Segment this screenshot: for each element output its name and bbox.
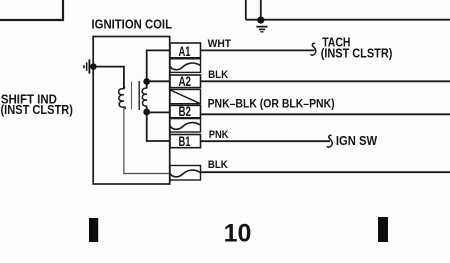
label (INST CLSTR) left: [1, 102, 73, 117]
page marker bar right: [378, 217, 388, 242]
svg-text:B2: B2: [179, 104, 192, 119]
wire secondary top to pin A2: [147, 80, 170, 82]
svg-text:A2: A2: [179, 74, 192, 89]
node junction dot top: [257, 17, 264, 24]
page marker bar left: [89, 218, 98, 242]
ignition coil outline box: [93, 37, 170, 185]
connector pin box A1: [170, 43, 201, 59]
label IGNITION COIL: [92, 16, 173, 31]
node dot secondary bottom: [143, 109, 150, 116]
wire secondary bottom to pin B2: [147, 111, 170, 113]
wire BLK upper: [201, 80, 450, 82]
wire stub from above to ground node: [260, 0, 262, 20]
wire PNK-BLK: [201, 113, 450, 115]
label BLK upper: [208, 69, 229, 81]
label TACH: [322, 35, 350, 50]
svg-text:BLK: BLK: [208, 159, 229, 171]
connector pin box B2: [170, 104, 201, 119]
label PNK-BLK (OR BLK-PNK): [208, 97, 335, 111]
node junction dot on coil case: [90, 63, 97, 70]
label WHT: [208, 38, 232, 50]
connector pin box A2: [170, 74, 201, 89]
label PNK: [209, 129, 229, 141]
wire PNK: [201, 140, 331, 142]
label (INST CLSTR) right: [321, 46, 393, 61]
svg-text:IGN SW: IGN SW: [336, 134, 377, 148]
svg-text:PNK: PNK: [209, 129, 229, 141]
wire ground dot to primary winding: [93, 67, 124, 88]
partial component box top-left: [0, 0, 63, 20]
ground symbol top (G101): [256, 26, 267, 33]
off-page squiggle to TACH: [311, 43, 316, 55]
svg-text:(INST CLSTR): (INST CLSTR): [321, 46, 393, 61]
connector body segment wavy 1: [170, 59, 201, 73]
svg-text:(INST CLSTR): (INST CLSTR): [1, 102, 73, 117]
connector body segment diagonal: [170, 90, 201, 104]
label BLK lower: [208, 159, 229, 171]
wire secondary drop to pin B1: [147, 107, 170, 141]
label IGN SW: [336, 134, 377, 148]
off-page squiggle to IGN SW: [327, 135, 332, 147]
connector body segment wavy 3: [170, 166, 201, 181]
page number 10: [224, 220, 252, 248]
svg-text:A1: A1: [179, 44, 191, 59]
svg-text:BLK: BLK: [208, 69, 229, 81]
primary winding L1: [119, 87, 126, 109]
partial component box top-middle: [245, 0, 247, 20]
svg-text:PNK–BLK (OR BLK–PNK): PNK–BLK (OR BLK–PNK): [208, 97, 335, 111]
wire BLK lower: [201, 171, 450, 173]
wire primary bottom to lower connector: [124, 107, 170, 174]
ground symbol left (case ground): [83, 59, 90, 73]
node dot secondary top: [143, 78, 150, 85]
connector body segment wavy 2: [170, 119, 201, 132]
transformer core: [132, 81, 140, 110]
secondary winding L2: [142, 88, 147, 106]
wire secondary riser to pin A1: [147, 50, 170, 88]
connector pin box B1: [170, 134, 201, 149]
svg-text:B1: B1: [179, 134, 191, 149]
svg-text:10: 10: [224, 220, 252, 248]
svg-text:WHT: WHT: [208, 38, 232, 50]
svg-text:IGNITION COIL: IGNITION COIL: [92, 16, 173, 31]
wire top horizontal to right edge: [246, 19, 450, 21]
label SHIFT IND: [1, 91, 57, 106]
wire WHT: [201, 49, 315, 51]
